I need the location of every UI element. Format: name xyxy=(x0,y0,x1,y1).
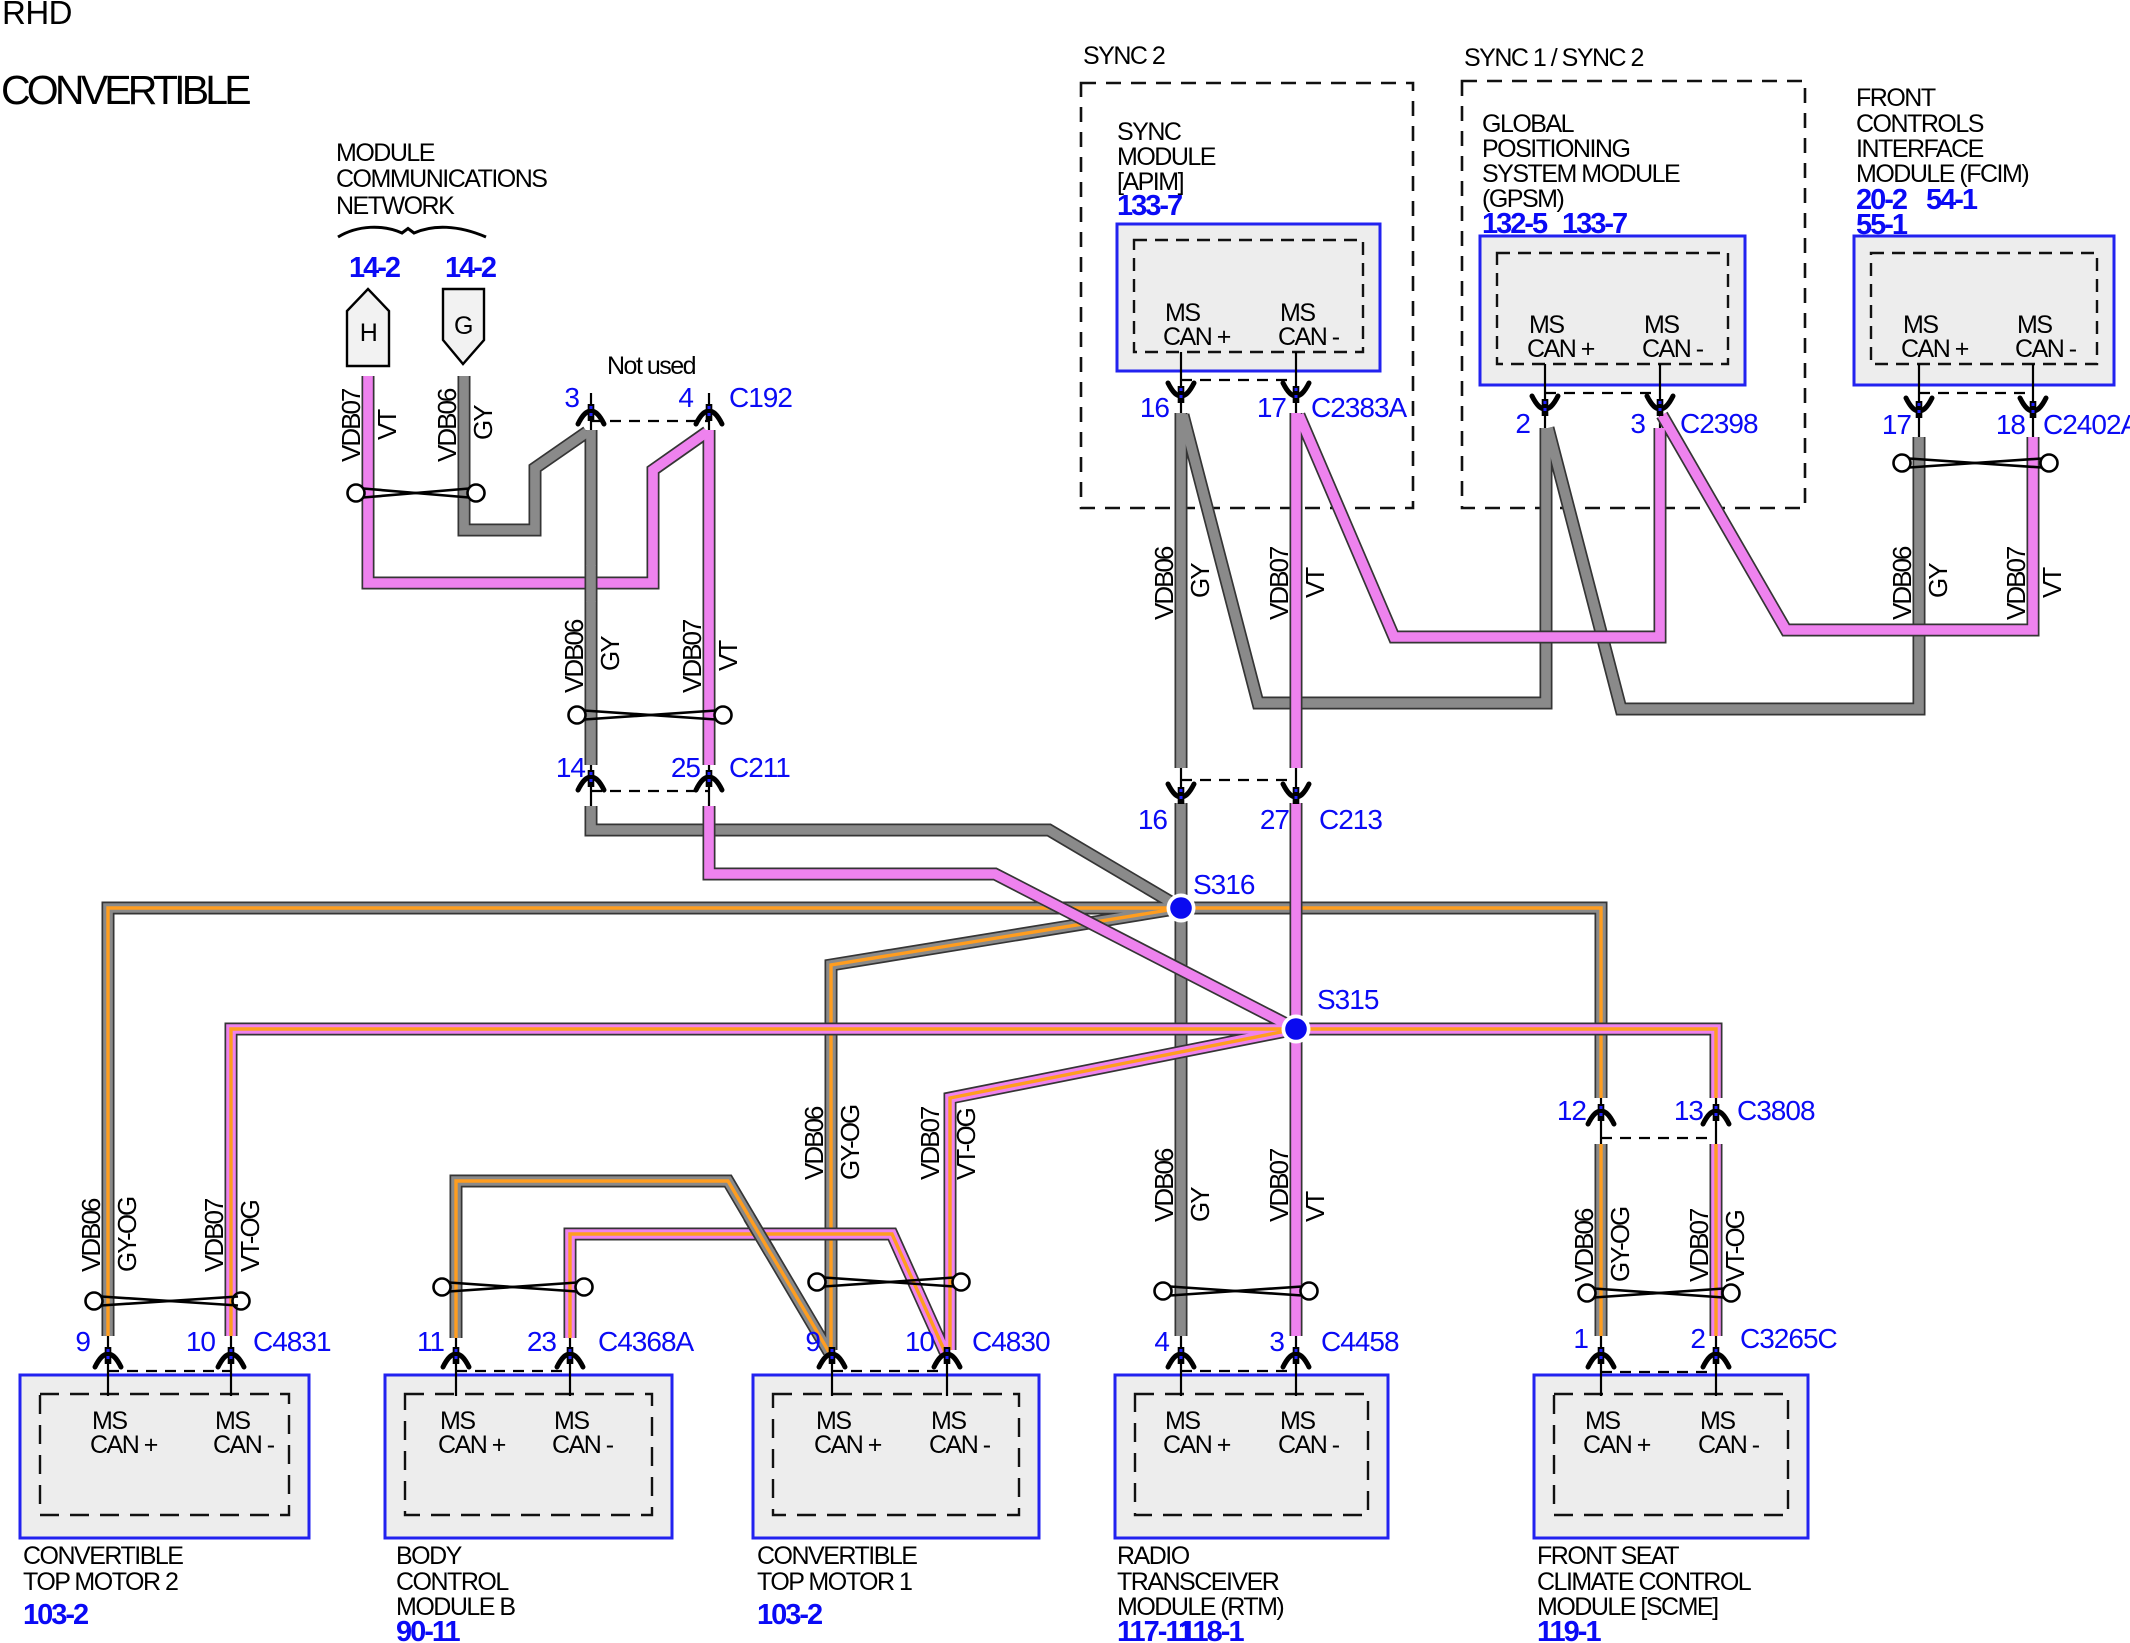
bottom module pin leads xyxy=(107,1336,109,1396)
wire label VDB06 GY below APIM xyxy=(1149,546,1215,620)
svg-text:VDB06: VDB06 xyxy=(76,1198,106,1272)
svg-text:MODULE: MODULE xyxy=(1117,143,1216,171)
wire label VDB07 VT-OG above SCME xyxy=(1684,1208,1750,1282)
svg-text:VDB07: VDB07 xyxy=(336,388,366,462)
svg-text:G: G xyxy=(454,312,472,340)
svg-text:4: 4 xyxy=(678,382,693,413)
svg-text:12: 12 xyxy=(1557,1095,1587,1126)
pin label MS CAN RTM xyxy=(1163,1407,1340,1459)
node MODULE COMMUNICATIONS NETWORK label xyxy=(336,139,547,220)
svg-text:CAN -: CAN - xyxy=(1278,1431,1340,1459)
svg-text:C3265C: C3265C xyxy=(1740,1323,1838,1354)
svg-text:SYSTEM MODULE: SYSTEM MODULE xyxy=(1482,160,1680,188)
svg-text:FRONT SEAT: FRONT SEAT xyxy=(1537,1542,1679,1570)
wire label VDB07 VT at H wire xyxy=(336,388,402,462)
twisted pair symbol RTM pair xyxy=(1155,1283,1318,1300)
module U1 SYNC MODULE [APIM] box xyxy=(1117,224,1380,371)
svg-text:C192: C192 xyxy=(729,382,792,413)
svg-text:3: 3 xyxy=(564,382,579,413)
svg-text:VT: VT xyxy=(372,409,402,440)
module FRONT SEAT CLIMATE CONTROL MODULE [SCME] box xyxy=(1534,1375,1808,1538)
connector C192 arrows xyxy=(578,404,604,424)
pin label MS CAN BCM xyxy=(438,1407,614,1459)
connector C4830 arrows xyxy=(819,1347,845,1367)
module APIM text xyxy=(1117,118,1216,196)
pin label MS CAN FCIM xyxy=(1901,311,2077,363)
svg-text:BODY: BODY xyxy=(396,1542,463,1570)
svg-text:25: 25 xyxy=(671,752,701,783)
svg-text:CAN +: CAN + xyxy=(1901,335,1969,363)
svg-text:CONVERTIBLE: CONVERTIBLE xyxy=(1,67,250,113)
twisted pair symbol FCIM pair xyxy=(1894,455,2058,472)
twisted pair symbol C192/C211 pair xyxy=(569,707,732,724)
svg-text:14-2: 14-2 xyxy=(349,252,400,284)
splice S315 xyxy=(1282,1015,1311,1044)
svg-text:16: 16 xyxy=(1140,392,1170,423)
FCIM pin leads xyxy=(1918,364,1920,437)
svg-text:C4368A: C4368A xyxy=(598,1326,695,1357)
svg-text:VDB07: VDB07 xyxy=(199,1198,229,1272)
svg-text:CONTROLS: CONTROLS xyxy=(1856,110,1984,138)
connector C4458 arrows xyxy=(1168,1347,1194,1367)
svg-text:17: 17 xyxy=(1257,392,1287,423)
twisted pair symbol H/G wires xyxy=(348,485,485,502)
svg-text:14-2: 14-2 xyxy=(445,252,496,284)
svg-text:GY-OG: GY-OG xyxy=(835,1105,865,1180)
wire label VDB06 GY at C192-3 drop xyxy=(559,619,625,693)
svg-text:54-1: 54-1 xyxy=(1926,184,1978,216)
svg-text:VDB07: VDB07 xyxy=(2001,546,2031,620)
svg-text:FRONT: FRONT xyxy=(1856,84,1936,112)
svg-text:VDB06: VDB06 xyxy=(1569,1208,1599,1282)
svg-text:C213: C213 xyxy=(1319,804,1382,835)
module FCIM text xyxy=(1856,84,2028,188)
svg-text:S315: S315 xyxy=(1317,984,1379,1015)
svg-text:55-1: 55-1 xyxy=(1856,209,1908,241)
C3808 pin leads xyxy=(1600,1098,1602,1144)
wire gray diagonal over pink crossing near BCM pin 9 xyxy=(748,1215,771,1254)
svg-text:GLOBAL: GLOBAL xyxy=(1482,110,1575,138)
svg-text:CAN -: CAN - xyxy=(1698,1431,1760,1459)
svg-text:C3808: C3808 xyxy=(1737,1095,1815,1126)
svg-text:118-1: 118-1 xyxy=(1180,1616,1244,1643)
SYNC 1 / SYNC 2 dashed enclosure xyxy=(1462,81,1805,508)
svg-text:133-7: 133-7 xyxy=(1562,208,1627,240)
svg-text:POSITIONING: POSITIONING xyxy=(1482,135,1629,163)
svg-text:VT: VT xyxy=(2037,567,2067,598)
svg-text:INTERFACE: INTERFACE xyxy=(1856,135,1984,163)
wire label VDB06 GY-OG above SCME xyxy=(1569,1207,1635,1282)
twisted pair symbol TOP MOTOR 2 pair xyxy=(86,1293,250,1310)
connector pin number and name labels xyxy=(75,382,2130,1357)
wire label VDB06 GY-OG above TOP MOTOR 2 xyxy=(76,1197,142,1272)
connector C2383A arrows xyxy=(1168,383,1194,403)
svg-text:14: 14 xyxy=(556,752,586,783)
module label RADIO TRANSCEIVER MODULE xyxy=(1117,1542,1283,1621)
svg-text:VDB07: VDB07 xyxy=(1264,1148,1294,1222)
svg-text:103-2: 103-2 xyxy=(23,1599,88,1631)
connector C3808 arrows xyxy=(1588,1104,1614,1124)
svg-text:SYNC 1 / SYNC 2: SYNC 1 / SYNC 2 xyxy=(1464,44,1644,72)
svg-text:119-1: 119-1 xyxy=(1537,1616,1601,1643)
svg-text:C4830: C4830 xyxy=(972,1326,1050,1357)
splice S316 xyxy=(1167,894,1196,923)
thin pin lead lines xyxy=(108,352,2033,1396)
svg-text:GY: GY xyxy=(1923,563,1953,598)
orange stripes on VT-OG wires xyxy=(231,1029,1716,1352)
connector C211 arrows xyxy=(578,770,604,790)
svg-text:90-11: 90-11 xyxy=(396,1616,460,1643)
pin label MS CAN SCME xyxy=(1583,1407,1760,1459)
module GPSM text xyxy=(1482,110,1680,213)
svg-text:VDB07: VDB07 xyxy=(1264,546,1294,620)
violet VT wire cores xyxy=(231,376,2033,1352)
module label CONVERTIBLE TOP MOTOR 2 xyxy=(23,1542,183,1596)
svg-text:CAN -: CAN - xyxy=(2015,335,2077,363)
node G connector symbol xyxy=(443,289,484,364)
svg-text:VDB07: VDB07 xyxy=(677,619,707,693)
svg-text:VDB07: VDB07 xyxy=(1684,1208,1714,1282)
wire label VDB06 GY below FCIM xyxy=(1887,546,1953,620)
svg-text:VT-OG: VT-OG xyxy=(1720,1210,1750,1282)
svg-text:C211: C211 xyxy=(729,752,790,783)
wire label VDB07 VT-OG above TOP MOTOR 1 xyxy=(915,1106,981,1180)
svg-text:VT: VT xyxy=(713,640,743,671)
svg-text:CAN -: CAN - xyxy=(552,1431,614,1459)
svg-text:CONVERTIBLE: CONVERTIBLE xyxy=(23,1542,183,1570)
svg-text:NETWORK: NETWORK xyxy=(336,192,455,220)
node H connector symbol xyxy=(347,289,389,366)
connector dashed mate lines xyxy=(108,380,2033,1372)
svg-text:GY: GY xyxy=(595,636,625,671)
svg-text:VDB06: VDB06 xyxy=(1149,546,1179,620)
svg-text:VT-OG: VT-OG xyxy=(235,1200,265,1272)
svg-text:GY-OG: GY-OG xyxy=(1605,1207,1635,1282)
svg-text:VDB07: VDB07 xyxy=(915,1106,945,1180)
twisted pair symbol BCM pair xyxy=(434,1279,593,1296)
svg-text:CAN +: CAN + xyxy=(814,1431,882,1459)
C192 pin stubs xyxy=(590,393,592,430)
svg-text:GY-OG: GY-OG xyxy=(112,1197,142,1272)
svg-text:VT-OG: VT-OG xyxy=(951,1108,981,1180)
svg-text:4: 4 xyxy=(1154,1326,1169,1357)
svg-text:3: 3 xyxy=(1630,408,1645,439)
GPSM pin leads xyxy=(1544,364,1546,428)
svg-text:C4458: C4458 xyxy=(1321,1326,1399,1357)
module GPSM box xyxy=(1480,236,1745,385)
pin label MS CAN TOP MOTOR 1 xyxy=(814,1407,991,1459)
svg-text:C2402A: C2402A xyxy=(2043,409,2130,440)
svg-text:2: 2 xyxy=(1515,408,1530,439)
wire label VDB07 VT below FCIM xyxy=(2001,546,2067,620)
svg-text:SYNC 2: SYNC 2 xyxy=(1083,42,1165,70)
svg-text:VDB06: VDB06 xyxy=(432,388,462,462)
pin label MS CAN GPSM xyxy=(1527,311,1704,363)
svg-text:COMMUNICATIONS: COMMUNICATIONS xyxy=(336,165,547,193)
svg-text:CAN -: CAN - xyxy=(1278,323,1340,351)
svg-text:S316: S316 xyxy=(1193,869,1255,900)
ref 20-2 54-1 55-1 xyxy=(1856,184,1978,241)
svg-text:VT: VT xyxy=(1300,567,1330,598)
module RADIO TRANSCEIVER MODULE (RTM) box xyxy=(1115,1375,1388,1538)
svg-text:H: H xyxy=(360,319,377,347)
svg-text:2: 2 xyxy=(1690,1323,1705,1354)
module label FRONT SEAT CLIMATE CONTROL MODULE xyxy=(1537,1542,1752,1621)
C211 pin leads xyxy=(590,763,592,806)
wire label VDB07 VT below APIM xyxy=(1264,546,1330,620)
module label CONVERTIBLE TOP MOTOR 1 xyxy=(757,1542,917,1596)
svg-text:GY: GY xyxy=(1185,563,1215,598)
svg-text:CAN +: CAN + xyxy=(90,1431,158,1459)
module FCIM box xyxy=(1854,236,2114,385)
svg-text:TOP MOTOR 1: TOP MOTOR 1 xyxy=(757,1568,912,1596)
svg-text:9: 9 xyxy=(75,1326,90,1357)
svg-text:RHD: RHD xyxy=(2,0,72,31)
wire label VDB06 GY above RTM xyxy=(1149,1148,1215,1222)
svg-text:16: 16 xyxy=(1138,804,1168,835)
wire label VDB06 GY at G wire xyxy=(432,388,498,462)
svg-text:C2383A: C2383A xyxy=(1311,392,1408,423)
svg-text:GY: GY xyxy=(1185,1187,1215,1222)
svg-text:CAN +: CAN + xyxy=(1527,335,1595,363)
svg-text:CAN +: CAN + xyxy=(1163,1431,1231,1459)
svg-text:CAN +: CAN + xyxy=(438,1431,506,1459)
brace under network label xyxy=(338,227,486,237)
connector C3265C arrows xyxy=(1588,1347,1614,1367)
violet VT wire outlines xyxy=(231,376,2033,1352)
svg-text:C2398: C2398 xyxy=(1680,408,1758,439)
twisted pair symbol TOP MOTOR 1 pair xyxy=(809,1274,970,1291)
svg-text:18: 18 xyxy=(1996,409,2026,440)
connector C2398 arrows xyxy=(1532,396,1558,416)
svg-text:CAN -: CAN - xyxy=(1642,335,1704,363)
svg-text:133-7: 133-7 xyxy=(1117,190,1182,222)
svg-text:RADIO: RADIO xyxy=(1117,1542,1190,1570)
APIM pin leads xyxy=(1180,352,1182,413)
wire gray vertical over pink crossing at C192-3 drop xyxy=(585,565,598,602)
svg-text:VT: VT xyxy=(1300,1191,1330,1222)
connector C4831 arrows xyxy=(95,1347,121,1367)
svg-text:Not used: Not used xyxy=(607,352,696,380)
svg-text:132-5: 132-5 xyxy=(1482,208,1548,240)
module BODY CONTROL MODULE B box xyxy=(385,1375,672,1538)
svg-text:VDB06: VDB06 xyxy=(1149,1148,1179,1222)
pin label MS CAN APIM xyxy=(1163,299,1340,351)
connector C2402A arrows xyxy=(1906,398,1932,418)
module label BODY CONTROL MODULE B xyxy=(396,1542,515,1621)
svg-text:10: 10 xyxy=(186,1326,216,1357)
ref 117-11 118-1 xyxy=(1117,1616,1244,1643)
svg-text:VDB06: VDB06 xyxy=(1887,546,1917,620)
module CONVERTIBLE TOP MOTOR 2 box xyxy=(20,1375,309,1538)
svg-text:VDB06: VDB06 xyxy=(799,1106,829,1180)
orange stripes on GY-OG wires xyxy=(108,908,1601,1352)
twisted pair symbol SCME pair xyxy=(1579,1285,1740,1302)
gray GY wire cores xyxy=(108,376,1919,1352)
SYNC 2 dashed enclosure xyxy=(1081,83,1413,508)
svg-text:TOP MOTOR 2: TOP MOTOR 2 xyxy=(23,1568,178,1596)
svg-text:SYNC: SYNC xyxy=(1117,118,1182,146)
svg-text:CAN +: CAN + xyxy=(1583,1431,1651,1459)
pin label MS CAN TOP MOTOR 2 xyxy=(90,1407,275,1459)
svg-text:GY: GY xyxy=(468,405,498,440)
svg-text:17: 17 xyxy=(1882,409,1912,440)
svg-text:103-2: 103-2 xyxy=(757,1599,822,1631)
svg-text:TRANSCEIVER: TRANSCEIVER xyxy=(1117,1568,1279,1596)
svg-text:VDB06: VDB06 xyxy=(559,619,589,693)
svg-text:CAN -: CAN - xyxy=(213,1431,275,1459)
connector C4368A arrows xyxy=(443,1347,469,1367)
wire label VDB07 VT above RTM xyxy=(1264,1148,1330,1222)
svg-text:23: 23 xyxy=(527,1326,557,1357)
svg-text:9: 9 xyxy=(805,1326,820,1357)
svg-text:27: 27 xyxy=(1260,804,1290,835)
svg-text:3: 3 xyxy=(1269,1326,1284,1357)
gray GY wire outlines xyxy=(108,376,1919,1352)
module CONVERTIBLE TOP MOTOR 1 box xyxy=(753,1375,1039,1538)
svg-text:MODULE: MODULE xyxy=(336,139,435,167)
connector C213 arrows xyxy=(1168,784,1194,804)
svg-text:CONVERTIBLE: CONVERTIBLE xyxy=(757,1542,917,1570)
svg-text:13: 13 xyxy=(1674,1095,1704,1126)
wire label VDB07 VT-OG above TOP MOTOR 2 xyxy=(199,1198,265,1272)
svg-text:10: 10 xyxy=(905,1326,935,1357)
svg-text:CAN +: CAN + xyxy=(1163,323,1231,351)
svg-text:C4831: C4831 xyxy=(253,1326,331,1357)
svg-text:CLIMATE CONTROL: CLIMATE CONTROL xyxy=(1537,1568,1752,1596)
wire label VDB06 GY-OG above TOP MOTOR 1 xyxy=(799,1105,865,1180)
wire label VDB07 VT at C192-4 drop xyxy=(677,619,743,693)
svg-text:CONTROL: CONTROL xyxy=(396,1568,509,1596)
svg-text:CAN -: CAN - xyxy=(929,1431,991,1459)
C213 pin leads xyxy=(1180,768,1182,803)
svg-text:11: 11 xyxy=(417,1326,444,1357)
svg-text:1: 1 xyxy=(1573,1323,1588,1354)
